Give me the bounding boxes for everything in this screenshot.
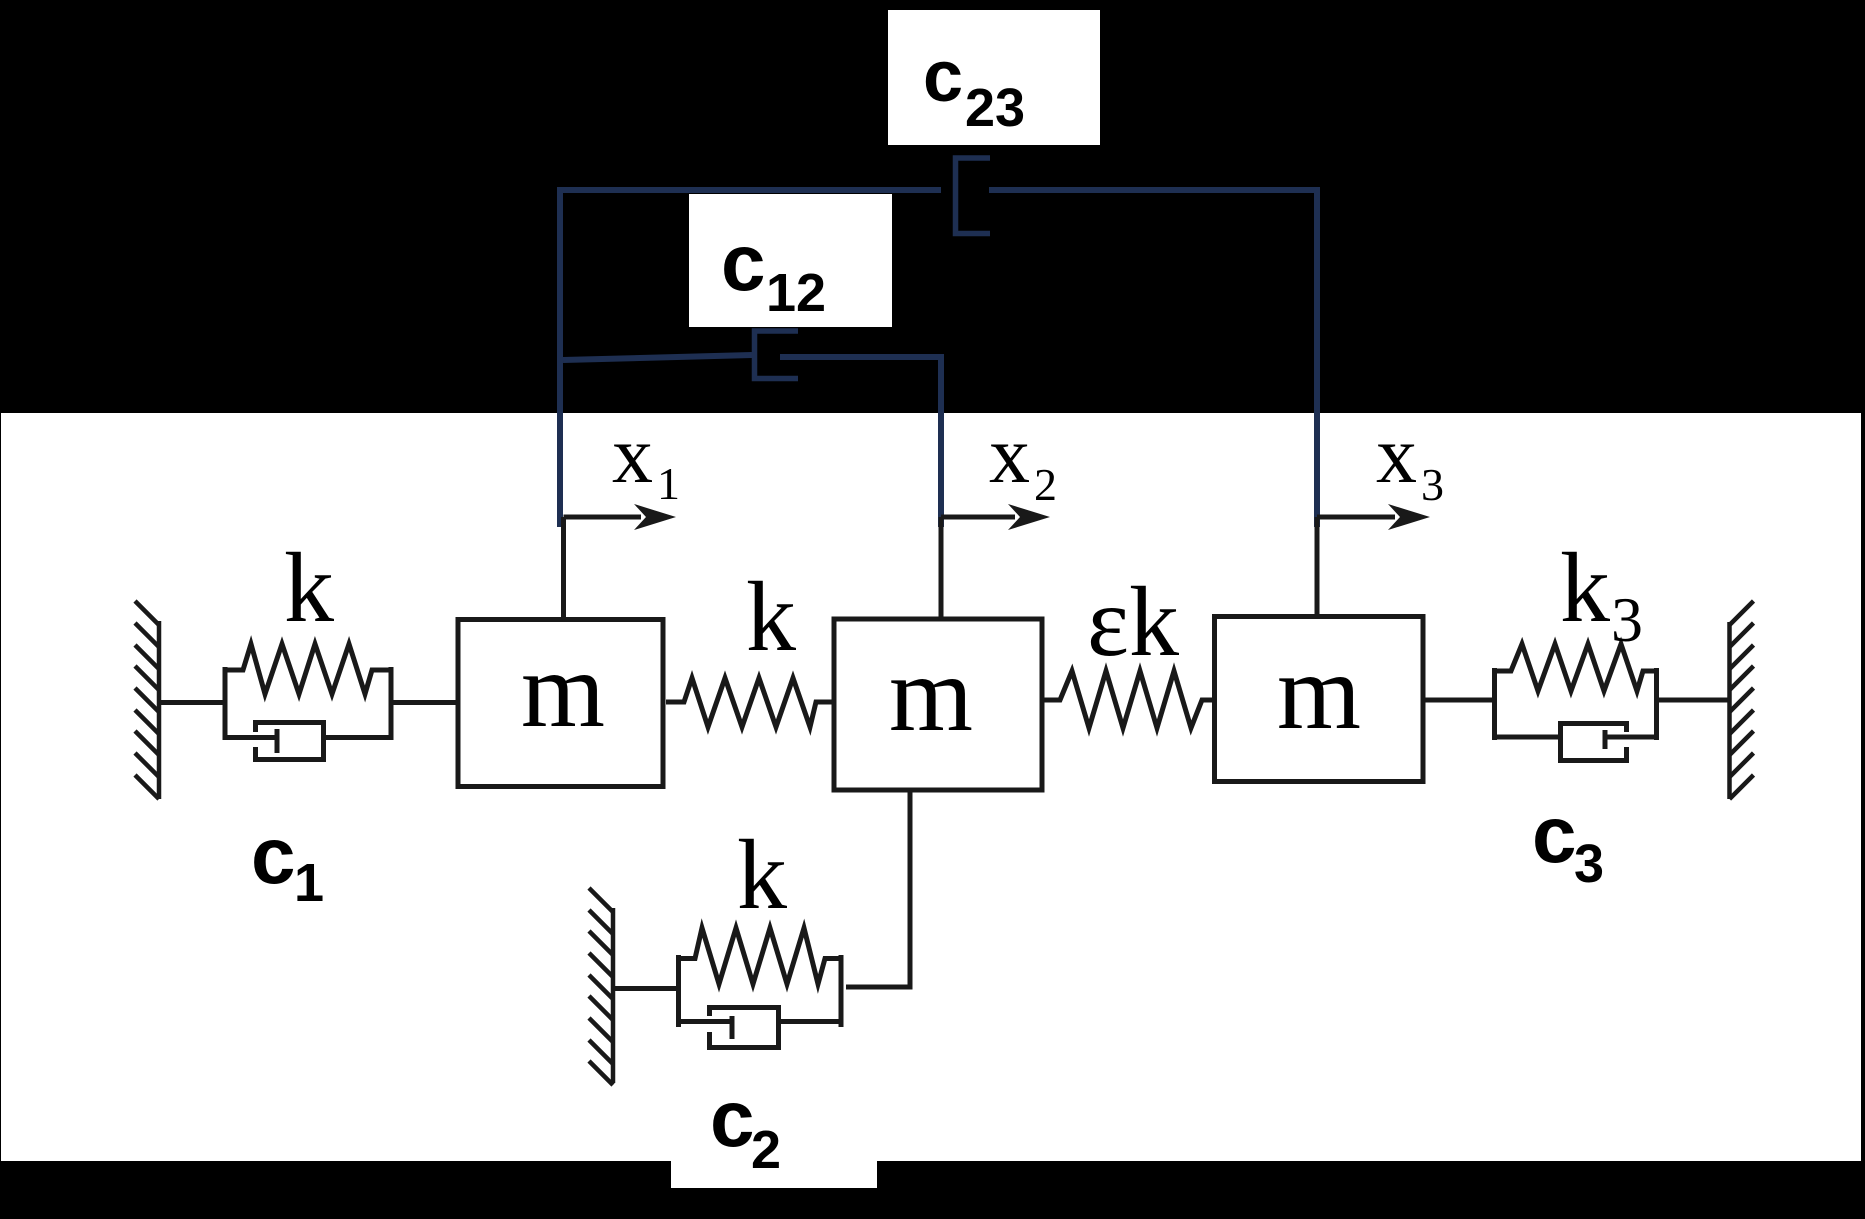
spring k (between m1 and m2)	[666, 678, 832, 727]
svg-text:3: 3	[1574, 834, 1604, 894]
wire: k3/c3 assembly to right wall	[1657, 698, 1730, 703]
damper c1 (cup with piston)	[225, 723, 391, 760]
svg-text:k: k	[746, 561, 796, 672]
spring k3 (right, with damper c3)	[1492, 644, 1659, 740]
wire: left wall to k/c1 assembly	[159, 700, 225, 705]
spring k (bottom, with damper c2)	[676, 928, 843, 1027]
damper c12 bracket symbol	[755, 331, 799, 379]
svg-text:3: 3	[1421, 459, 1444, 510]
wire: mass m3 to k3/c3 assembly	[1423, 698, 1494, 703]
white tab under c2 label	[671, 1161, 877, 1188]
svg-text:m: m	[889, 635, 973, 754]
svg-text:k: k	[1560, 532, 1610, 643]
figure white panel	[1, 413, 1861, 1161]
mass m2	[834, 619, 1042, 790]
damper c3 (cup with piston, mirrored)	[1495, 724, 1657, 761]
label c1	[251, 811, 324, 913]
wire: top damper rail right segment (damper c23 to node 3)	[989, 190, 1317, 527]
svg-text:c: c	[1532, 790, 1577, 879]
svg-text:k: k	[284, 532, 334, 643]
wire: mass m2 down to k/c2 assembly	[846, 790, 910, 987]
label c2	[710, 1074, 781, 1180]
coordinate arrow x3	[1317, 409, 1444, 530]
svg-text:x: x	[989, 409, 1030, 500]
svg-text:2: 2	[1034, 459, 1057, 510]
spring ek (between m2 and m3)	[1042, 671, 1216, 728]
coordinate arrow x2	[941, 409, 1057, 530]
svg-text:1: 1	[657, 458, 680, 509]
coordinate arrow x1	[564, 409, 681, 530]
wire: drop line from node 2 to mass m2	[939, 517, 944, 620]
svg-text:k: k	[737, 819, 787, 930]
label box c23	[888, 10, 1100, 145]
wire: drop line from node 3 to mass m3	[1315, 517, 1320, 620]
spring k (left, with damper c1)	[223, 644, 393, 740]
bottom wall (for c2)	[589, 888, 613, 1085]
svg-text:2: 2	[751, 1120, 781, 1180]
wire: mid damper rail right segment (damper c12 to node 2)	[780, 357, 941, 527]
right wall	[1730, 601, 1754, 799]
damper c23 bracket symbol	[956, 158, 991, 234]
svg-text:c: c	[710, 1074, 755, 1163]
svg-text:3: 3	[1611, 584, 1643, 655]
left wall	[135, 601, 159, 799]
label box c12	[689, 194, 892, 327]
wire: bottom wall to k/c2 assembly	[613, 986, 678, 991]
wire: mid damper rail left segment (node 1 to damper c12)	[563, 355, 752, 360]
svg-text:εk: εk	[1087, 566, 1179, 677]
svg-text:1: 1	[294, 853, 324, 913]
wire: k/c1 assembly to mass m1	[391, 700, 458, 705]
label k3	[1560, 532, 1643, 655]
svg-text:m: m	[1277, 633, 1361, 752]
mass m1	[458, 620, 663, 787]
wire: top damper rail left segment (node 1 to damper c23)	[560, 190, 941, 527]
svg-text:c: c	[721, 218, 766, 307]
svg-text:23: 23	[965, 78, 1025, 138]
svg-text:12: 12	[766, 263, 826, 323]
damper c2 (cup with piston)	[679, 1008, 842, 1048]
svg-text:x: x	[612, 409, 653, 500]
svg-text:c: c	[923, 37, 963, 117]
svg-text:m: m	[521, 631, 605, 750]
label c3	[1532, 790, 1604, 894]
svg-text:c: c	[251, 811, 296, 900]
svg-text:x: x	[1376, 409, 1417, 500]
mass m3	[1215, 617, 1424, 782]
wire: drop line from node 1 to mass m1	[561, 517, 566, 620]
